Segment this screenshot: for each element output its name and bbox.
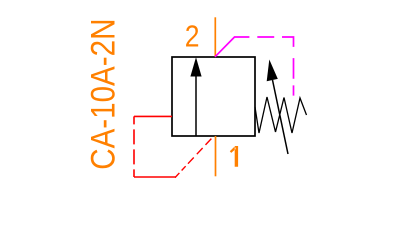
valve body U1 (square envelope)	[172, 57, 255, 136]
port 1 label	[230, 146, 238, 167]
port 2 label	[185, 20, 200, 54]
adjustment arrow (through spring)	[267, 60, 288, 155]
label CA-10A-2N	[83, 19, 122, 170]
port 2 line	[214, 17, 216, 57]
flow arrow (inside valve body)	[190, 57, 201, 136]
pilot line (magenta dashed, port 2 to spring chamber)	[215, 37, 294, 96]
drain line segment (red solid, body to elbow)	[134, 115, 172, 117]
drain line segment (red dashed diagonal to port 1)	[175, 137, 213, 177]
port 1 line	[215, 136, 217, 176]
drain line segment (red dashed vertical)	[133, 116, 135, 177]
svg-text:2: 2	[185, 20, 200, 54]
drain line segment (red bottom horizontal)	[134, 176, 176, 178]
spring	[255, 97, 307, 133]
svg-text:CA-10A-2N: CA-10A-2N	[83, 19, 122, 170]
